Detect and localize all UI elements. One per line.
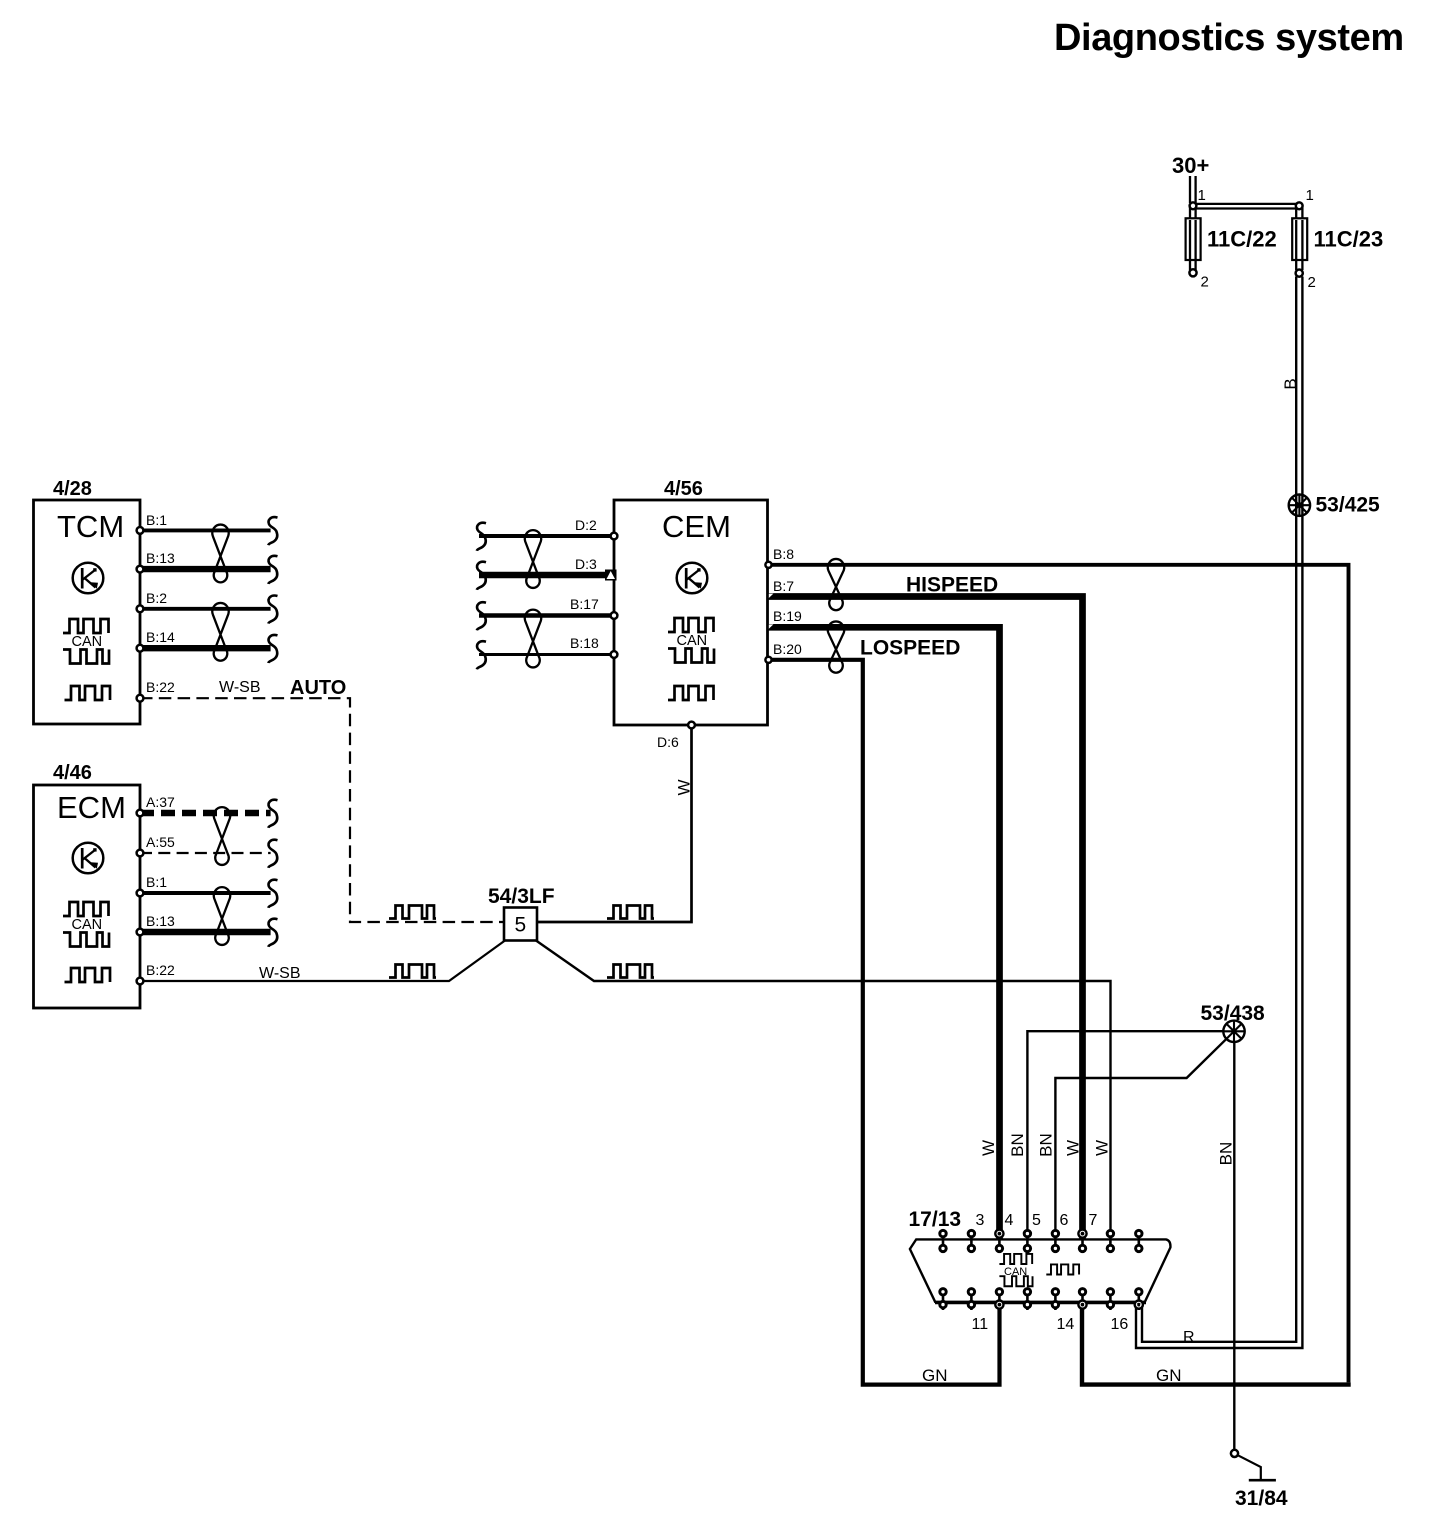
svg-text:W: W: [1064, 1140, 1083, 1156]
break symbol TCM B:1: [268, 517, 277, 545]
label R on wire to pin 16: [1183, 1329, 1195, 1346]
svg-text:B:7: B:7: [773, 578, 794, 594]
splice 53/425: [1289, 494, 1380, 517]
svg-text:5: 5: [1032, 1212, 1041, 1229]
title Diagnostics system: [1054, 17, 1404, 59]
pin CEM B:8: [765, 546, 794, 568]
svg-text:B:19: B:19: [773, 608, 802, 624]
fuse 11C/23: [1292, 218, 1383, 270]
connector top pin 7: [1107, 1230, 1113, 1253]
label W-SB on ECM B:22: [259, 965, 300, 982]
svg-text:D:6: D:6: [657, 734, 679, 750]
connector pulse symbol: [1046, 1264, 1079, 1274]
K-line symbol CEM: [677, 563, 708, 594]
wire ECM A:55 dashed: [140, 852, 271, 854]
wire CEM B:7 HISPEED to connector pin 7: [768, 597, 1083, 1240]
pin CEM B:18: [570, 635, 617, 658]
wire CEM D:3: [479, 572, 614, 578]
wire BN 53/438 to ground switch: [1233, 1042, 1235, 1450]
break symbol CEM D:3: [477, 562, 486, 590]
wire ECM B:22 W-SB to 54/3LF: [140, 941, 505, 982]
svg-text:3: 3: [976, 1212, 985, 1229]
break symbol CEM B:17: [477, 602, 486, 630]
svg-text:17/13: 17/13: [909, 1208, 962, 1231]
svg-text:14: 14: [1057, 1316, 1075, 1333]
label W rotated K-line wire: [1093, 1140, 1112, 1156]
svg-text:4/28: 4/28: [53, 478, 92, 500]
svg-text:BN: BN: [1217, 1142, 1236, 1166]
twisted pair TCM B:2/B:14: [212, 603, 228, 661]
wire CEM D:6 W to 54/3LF: [537, 725, 692, 922]
connector bottom pin 13: [1052, 1288, 1058, 1311]
label GN right: [1156, 1366, 1182, 1385]
svg-text:W: W: [1093, 1140, 1112, 1156]
break symbol TCM B:14: [268, 635, 277, 663]
svg-text:CAN: CAN: [72, 634, 103, 650]
wire CEM B:20 LOSPEED GN loop to connector pin 11: [768, 660, 1000, 1385]
svg-text:6: 6: [1060, 1212, 1069, 1229]
twisted pair TCM B:1/B:13: [212, 525, 228, 583]
svg-text:31/84: 31/84: [1235, 1487, 1288, 1510]
connector bottom pin 11: [995, 1288, 1003, 1311]
twisted pair ECM B:1/B:13: [214, 887, 230, 945]
node 1 left: [1190, 187, 1206, 209]
svg-text:5: 5: [515, 914, 527, 937]
pin CEM B:20: [765, 641, 802, 663]
pin ECM B:13: [137, 913, 175, 935]
pin TCM B:22: [137, 679, 175, 702]
connector bottom pin 14: [1078, 1288, 1086, 1311]
connector bottom pin 15: [1107, 1288, 1113, 1311]
connector CAN symbol: [999, 1254, 1032, 1286]
svg-text:Diagnostics system: Diagnostics system: [1054, 17, 1404, 59]
node 2 right: [1296, 270, 1316, 292]
svg-text:W-SB: W-SB: [219, 679, 260, 696]
svg-text:B:8: B:8: [773, 546, 794, 562]
svg-text:B:13: B:13: [146, 913, 175, 929]
pin CEM D:3: [575, 556, 617, 581]
node 2 left: [1189, 269, 1208, 291]
label W rotated on D:6 wire: [675, 779, 694, 795]
svg-text:B:14: B:14: [146, 629, 175, 645]
svg-text:16: 16: [1111, 1316, 1129, 1333]
svg-text:7: 7: [1089, 1212, 1098, 1229]
wire CEM B:17: [479, 613, 614, 617]
connector top pin 8: [1136, 1230, 1142, 1253]
connector top pin 7 label: [1089, 1212, 1098, 1229]
break symbol TCM B:13: [268, 556, 277, 584]
CAN symbol ECM: [63, 902, 109, 947]
svg-text:CAN: CAN: [72, 917, 103, 933]
svg-text:LOSPEED: LOSPEED: [860, 637, 960, 660]
wire TCM B:14: [140, 645, 271, 651]
svg-text:A:37: A:37: [146, 794, 175, 810]
wire ECM A:37 dashed: [140, 810, 271, 816]
svg-text:1: 1: [1306, 187, 1314, 204]
connector top pin 5: [1052, 1230, 1058, 1253]
twisted pair CEM B:8/B:7: [828, 559, 844, 610]
svg-text:B:13: B:13: [146, 550, 175, 566]
wire TCM B:1: [140, 528, 271, 532]
connector top pin 6 label: [1060, 1212, 1069, 1229]
connector top pin 3 label: [976, 1212, 985, 1229]
CAN symbol CEM: [668, 618, 714, 663]
pin CEM D:6: [657, 722, 695, 750]
wire R double line fuse to connector pin 16: [1136, 277, 1302, 1349]
svg-text:2: 2: [1201, 274, 1209, 291]
svg-text:HISPEED: HISPEED: [906, 574, 998, 597]
pin ECM A:55: [137, 834, 175, 856]
pin TCM B:1: [137, 512, 168, 534]
pin TCM B:2: [137, 590, 168, 612]
pulse symbol on K-line branch: [607, 965, 654, 978]
svg-text:ECM: ECM: [57, 790, 126, 825]
twisted pair CEM D:2/D:3: [525, 530, 541, 588]
svg-text:B:1: B:1: [146, 874, 167, 890]
wire ECM B:13: [140, 929, 271, 935]
connector bottom pin 16 label: [1111, 1316, 1129, 1333]
pin CEM B:19: [769, 608, 802, 629]
control module CEM 4/56: [614, 478, 768, 725]
connector bottom pin 10: [968, 1288, 974, 1311]
pin ECM B:22: [137, 962, 175, 984]
connector top pin 6: [1078, 1230, 1086, 1253]
svg-text:53/425: 53/425: [1316, 494, 1381, 517]
twisted pair CEM B:19/B:20: [828, 621, 844, 672]
svg-text:D:3: D:3: [575, 556, 597, 572]
pin TCM B:14: [137, 629, 175, 652]
pulse symbol ECM: [65, 968, 111, 982]
label BN rotated: [1217, 1142, 1236, 1166]
pulse symbol on AUTO branch: [389, 906, 436, 919]
svg-text:R: R: [1183, 1329, 1195, 1346]
svg-text:11C/23: 11C/23: [1314, 227, 1384, 252]
svg-text:W: W: [979, 1140, 998, 1156]
wire TCM B:22 dashed W-SB AUTO to 54/3LF: [140, 698, 503, 922]
connector 17/13 body: [909, 1208, 1171, 1303]
label LOSPEED: [860, 637, 960, 660]
pin CEM B:17: [570, 596, 617, 619]
label BN rotated wire to pin 5: [1008, 1133, 1027, 1157]
wire TCM B:13: [140, 566, 271, 572]
wire CEM B:18: [479, 653, 614, 656]
svg-text:1: 1: [1198, 187, 1206, 204]
break symbol ECM A:55: [268, 840, 277, 868]
label GN left: [922, 1366, 948, 1385]
svg-text:A:55: A:55: [146, 834, 175, 850]
svg-text:4/56: 4/56: [664, 478, 703, 500]
label W rotated wire to pin 4: [979, 1140, 998, 1156]
pulse symbol on D:6 branch: [607, 906, 654, 919]
connector bottom pin 12: [1024, 1288, 1030, 1311]
pin CEM D:2: [575, 517, 617, 539]
connector top pin 5 label: [1032, 1212, 1041, 1229]
label AUTO: [290, 677, 346, 699]
label BN rotated wire to pin 6: [1037, 1133, 1056, 1157]
junction 54/3LF: [488, 885, 555, 941]
wire CEM B:8 GN to connector pin 14: [768, 565, 1349, 1383]
svg-text:BN: BN: [1037, 1133, 1056, 1157]
wire CEM D:2: [479, 534, 614, 538]
connector top pin 2: [968, 1230, 974, 1253]
connector bottom pin 14 label: [1057, 1316, 1075, 1333]
break symbol ECM B:13: [268, 919, 277, 947]
svg-text:CEM: CEM: [662, 509, 731, 544]
svg-text:B: B: [1281, 378, 1300, 389]
wire ECM B:1: [140, 891, 271, 895]
svg-text:B:22: B:22: [146, 679, 175, 695]
svg-text:4: 4: [1005, 1212, 1014, 1229]
break symbol CEM B:18: [477, 641, 486, 669]
CAN symbol TCM: [63, 619, 109, 664]
break symbol CEM D:2: [477, 523, 486, 551]
svg-text:GN: GN: [922, 1366, 948, 1385]
pin ECM A:37: [137, 794, 175, 816]
svg-text:W-SB: W-SB: [259, 965, 300, 982]
svg-text:B:1: B:1: [146, 512, 167, 528]
svg-text:D:2: D:2: [575, 517, 597, 533]
K-line symbol ECM: [73, 843, 104, 874]
svg-text:TCM: TCM: [57, 509, 124, 544]
pin CEM B:7: [769, 578, 794, 598]
ground contact 31/84: [1231, 1450, 1288, 1510]
power feed 30+: [1172, 153, 1209, 203]
fuse 11C/22: [1186, 218, 1277, 270]
wire TCM B:2: [140, 607, 271, 611]
connector top pin 4: [1024, 1230, 1030, 1253]
svg-text:30+: 30+: [1172, 153, 1209, 178]
svg-text:AUTO: AUTO: [290, 677, 346, 699]
svg-text:54/3LF: 54/3LF: [488, 885, 555, 908]
svg-text:GN: GN: [1156, 1366, 1182, 1385]
label W-SB on TCM B:22: [219, 679, 260, 696]
break symbol TCM B:2: [268, 596, 277, 624]
svg-text:B:17: B:17: [570, 596, 599, 612]
svg-text:W: W: [675, 779, 694, 795]
svg-text:B:22: B:22: [146, 962, 175, 978]
connector top pin 4 label: [1005, 1212, 1014, 1229]
wire BN 53/438 to connector pin 6: [1055, 1039, 1226, 1238]
pulse symbol on ECM W-SB branch: [389, 965, 436, 978]
svg-text:4/46: 4/46: [53, 762, 92, 784]
svg-text:CAN: CAN: [677, 633, 708, 649]
break symbol ECM B:1: [268, 880, 277, 908]
control module TCM 4/28: [34, 478, 141, 724]
svg-text:B:20: B:20: [773, 641, 802, 657]
K-line symbol TCM: [73, 563, 104, 594]
svg-text:2: 2: [1308, 274, 1316, 291]
connector bottom pin 11 label: [972, 1316, 989, 1333]
wire GN bottom right run: [1082, 1302, 1351, 1385]
control module ECM 4/46: [34, 762, 141, 1008]
pin TCM B:13: [137, 550, 175, 572]
connector bottom pin 9: [940, 1288, 946, 1311]
label HISPEED: [906, 574, 998, 597]
svg-text:BN: BN: [1008, 1133, 1027, 1157]
pulse symbol CEM: [668, 686, 714, 700]
label W rotated wire to pin 7: [1064, 1140, 1083, 1156]
wire CEM B:19 to connector pin 4: [768, 627, 1000, 1239]
wire BN 53/438 to connector pin 5: [1027, 1031, 1223, 1238]
twisted pair CEM B:17/B:18: [525, 610, 541, 668]
svg-text:11: 11: [972, 1316, 989, 1333]
pin ECM B:1: [137, 874, 168, 896]
splice 53/438: [1201, 1002, 1266, 1042]
connector bottom pin 16: [1135, 1288, 1143, 1311]
wire 54/3LF to connector pin 7 K-line: [536, 941, 1111, 1239]
svg-text:11C/22: 11C/22: [1207, 227, 1277, 252]
pulse symbol TCM: [65, 686, 111, 700]
wire double line node1 to node1: [1190, 204, 1302, 218]
svg-text:B:2: B:2: [146, 590, 167, 606]
twisted pair ECM A:37/A:55: [214, 807, 230, 865]
label B rotated on R wire: [1281, 378, 1300, 389]
connector top pin 1: [940, 1230, 946, 1253]
svg-text:B:18: B:18: [570, 635, 599, 651]
break symbol ECM A:37: [268, 800, 277, 828]
svg-text:53/438: 53/438: [1201, 1002, 1266, 1025]
connector top pin 3: [995, 1230, 1003, 1253]
node 1 right: [1296, 187, 1314, 209]
